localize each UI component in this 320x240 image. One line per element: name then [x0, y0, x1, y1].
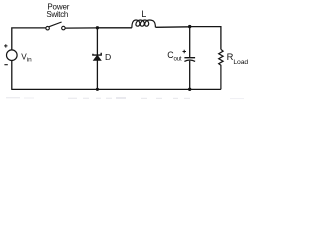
source Vin minus: [4, 64, 7, 66]
power switch SW1 blade: [49, 22, 62, 27]
node junction dot at cout top: [188, 25, 191, 28]
wire diode node to inductor: [97, 27, 131, 29]
power switch SW1 left contact: [46, 26, 50, 30]
wire inductor to cout node: [156, 26, 190, 29]
svg-text:D: D: [105, 52, 111, 62]
diode D (schottky, pointing up) triangle: [94, 55, 102, 60]
wire cout node to top-right corner and down to resistor: [190, 27, 221, 50]
source Vin circle: [7, 50, 18, 61]
wire switch to diode node: [65, 27, 97, 29]
diode D schottky cathode bar with hooks: [93, 53, 101, 55]
wire cout branch lower: [189, 61, 191, 90]
svg-text:RLoad: RLoad: [227, 51, 249, 66]
inductor L coil: [132, 20, 156, 28]
bottom wire rail: [12, 88, 221, 90]
capacitor plus sign: [183, 50, 187, 54]
svg-text:Switch: Switch: [46, 10, 68, 19]
capacitor Cout curved bottom plate: [184, 60, 195, 61]
resistor RLoad zigzag: [219, 49, 223, 89]
capacitor Cout top plate: [184, 57, 195, 59]
faint cropped caption remnants: [6, 97, 244, 100]
power switch SW1 right contact: [62, 26, 66, 30]
svg-text:Vin: Vin: [21, 52, 32, 63]
node junction dot at diode top: [96, 26, 99, 29]
source Vin plus: [4, 44, 7, 47]
node junction dot at cout bottom: [188, 88, 191, 91]
wire top-left rail from corner to switch: [12, 28, 46, 51]
svg-text:Cout: Cout: [167, 50, 182, 62]
node junction dot at diode bottom: [96, 88, 99, 91]
wire cout branch upper: [189, 27, 191, 57]
svg-text:L: L: [141, 9, 146, 19]
wire diode branch vertical: [96, 28, 98, 90]
wire left rail lower: [11, 60, 13, 90]
